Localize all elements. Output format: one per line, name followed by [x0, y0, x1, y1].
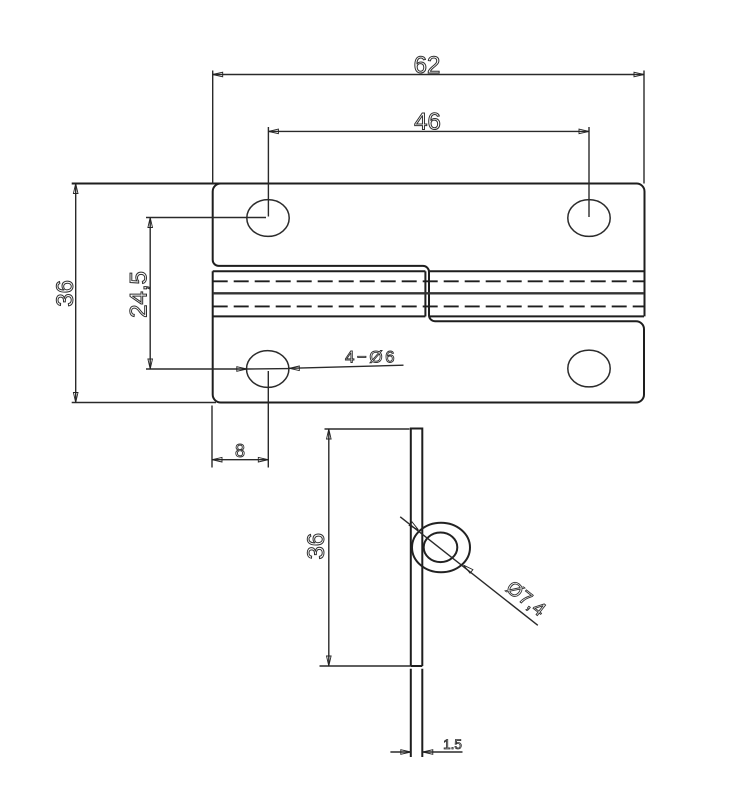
- svg-text:62: 62: [414, 52, 441, 79]
- svg-text:1.5: 1.5: [443, 737, 462, 752]
- svg-text:24,5: 24,5: [126, 271, 153, 318]
- svg-text:46: 46: [414, 109, 441, 136]
- svg-text:36: 36: [52, 280, 79, 307]
- svg-text:8: 8: [235, 441, 245, 461]
- svg-text:4−Ø6: 4−Ø6: [345, 348, 397, 367]
- svg-text:36: 36: [303, 533, 330, 560]
